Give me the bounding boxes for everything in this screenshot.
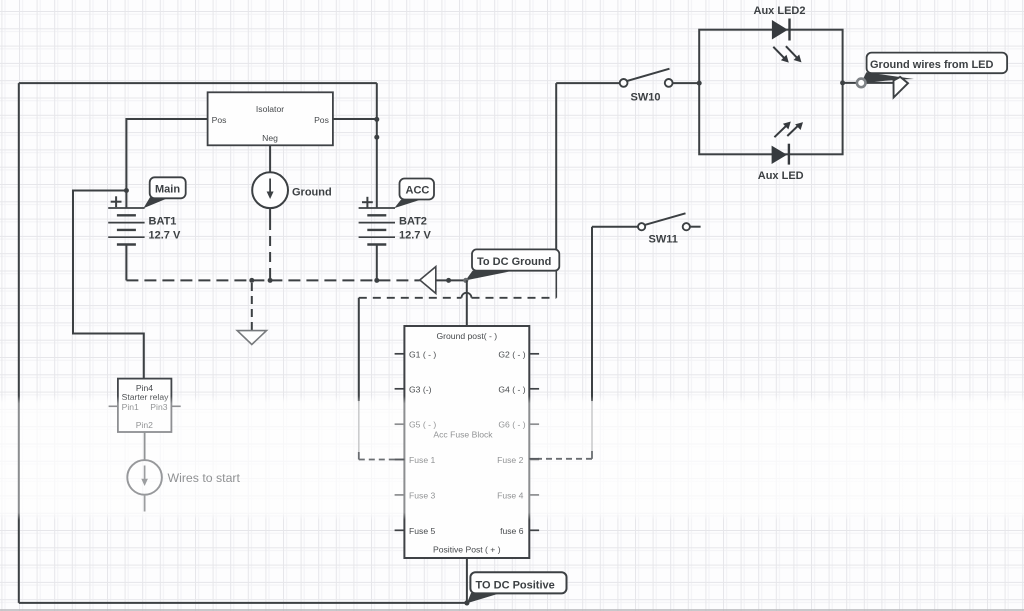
callout: To DC Positive label: [467, 593, 502, 604]
svg-text:SW11: SW11: [649, 234, 678, 246]
svg-text:G2 ( - ): G2 ( - ): [498, 349, 525, 359]
svg-text:BAT2: BAT2: [399, 216, 427, 228]
wire: relay Pin2 to wires-to-start source: [144, 432, 146, 460]
svg-text:SW10: SW10: [631, 91, 661, 103]
svg-text:TO DC Positive: TO DC Positive: [476, 579, 555, 591]
watermark wash overlay: [0, 396, 1024, 520]
svg-text:fuse 6: fuse 6: [500, 526, 524, 536]
op-amp: none / component isolator U1 box: [208, 92, 333, 145]
wire: isolator Neg pin down to ground source: [269, 145, 271, 172]
wire: loop right to ground-wires anchor: [843, 82, 896, 84]
pin stubs: fuse block left: [395, 354, 405, 531]
wire: SW10 net vertical to label: [555, 83, 557, 260]
wire: dashed link into Fuse 1: [358, 452, 360, 460]
svg-text:Aux LED: Aux LED: [758, 170, 804, 182]
svg-text:G4 ( - ): G4 ( - ): [498, 384, 525, 394]
label: BAT2 plus sign: [362, 197, 373, 208]
node: ground bus junction right: [446, 278, 451, 283]
wire: dashed drop to ground symbol: [251, 283, 253, 331]
svg-text:Isolator: Isolator: [256, 104, 284, 114]
wire: To DC Ground anchor down to fuse block Ground post: [466, 280, 468, 326]
svg-text:12.7 V: 12.7 V: [149, 230, 181, 242]
node: ground bus junction at ground symbol drop: [249, 278, 254, 283]
wire: dashed net to fuse block ground with hop: [359, 297, 462, 299]
wire: SW11 down to fuse block Fuse 2: [591, 227, 593, 401]
svg-text:Pos: Pos: [212, 115, 227, 125]
callout: To DC Ground label: [466, 271, 509, 281]
wire: dashed link into Fuse 2: [591, 451, 593, 459]
wire: ground source to dashed ground bus: [269, 208, 271, 220]
svg-text:Neg: Neg: [262, 133, 278, 143]
wire: label box right drop: [555, 271, 557, 298]
node: ground bus junction at ground source: [268, 278, 273, 283]
source: ground current source circle: [252, 172, 288, 208]
svg-text:Ground wires from LED: Ground wires from LED: [870, 59, 994, 71]
svg-text:Fuse 5: Fuse 5: [409, 526, 435, 536]
wire: top bus from left border to BAT2 drop: [19, 82, 377, 84]
wire: isolator left Pos to BAT1 top: [126, 119, 207, 191]
wire: LED parallel loop: [699, 30, 842, 155]
wire: dashed ground bus: [126, 279, 419, 281]
svg-text:Positive Post ( + ): Positive Post ( + ): [433, 545, 501, 555]
component: Pin4 starter relay box: [118, 379, 171, 432]
svg-text:Ground: Ground: [292, 187, 332, 199]
callout: Ground wires from LED label: [860, 72, 914, 84]
wire: fuse block positive post to bottom bus: [466, 558, 468, 603]
node: gray ring terminal: [857, 79, 866, 88]
svg-text:Ground post( - ): Ground post( - ): [436, 331, 497, 341]
node: loop right junction: [840, 80, 845, 85]
image bottom border: [0, 609, 1024, 611]
callout: Main label: [143, 197, 169, 208]
source: wires to start circle: [127, 460, 162, 495]
LED D1 Aux LED2: [772, 20, 788, 40]
wire: vertical from top bus down to BAT2: [376, 83, 378, 207]
wire: BAT1 top to starter relay: [73, 191, 144, 379]
svg-text:G1 ( - ): G1 ( - ): [409, 349, 436, 359]
battery BAT2: [359, 208, 395, 280]
svg-text:12.7 V: 12.7 V: [399, 230, 431, 242]
node: bottom bus junction: [464, 600, 469, 605]
svg-text:ACC: ACC: [406, 185, 430, 197]
pin stubs: fuse block right: [529, 354, 539, 531]
svg-text:Pos: Pos: [314, 115, 329, 125]
node: gray dot at To DC Ground anchor: [463, 278, 468, 283]
LED D2 Aux LED: [772, 146, 787, 164]
wire: bottom positive bus: [19, 602, 467, 604]
wire: isolator right Pos pin to vertical: [333, 118, 377, 120]
wire: below wires-to-start: [144, 495, 146, 512]
svg-text:To DC Ground: To DC Ground: [477, 256, 551, 268]
node: loop left junction: [697, 81, 702, 86]
battery BAT1: [108, 191, 144, 281]
callout: ACC label: [394, 200, 420, 209]
svg-text:Main: Main: [155, 184, 180, 196]
node: isolator Pos right junction: [374, 117, 379, 122]
svg-text:Aux LED2: Aux LED2: [754, 5, 806, 17]
label: BAT1 plus sign: [111, 196, 122, 207]
ground symbol: [237, 331, 266, 345]
node: ground bus junction at BAT2: [374, 278, 379, 283]
node: BAT1 positive junction: [124, 188, 129, 193]
svg-text:BAT1: BAT1: [149, 216, 177, 228]
node: junction below Pos right: [374, 135, 379, 140]
component: Acc Fuse Block: [404, 326, 529, 558]
arrow: open flag arrow: [894, 77, 909, 98]
switch SW11: [592, 226, 638, 228]
svg-text:G3 (-): G3 (-): [409, 384, 432, 394]
switch SW10: [556, 82, 619, 84]
arrow: open arrow on ground bus: [420, 267, 436, 294]
wire: left border vertical: [18, 83, 20, 603]
wire: vertical down from corner x359: [358, 298, 360, 401]
pin stubs: starter relay: [109, 405, 118, 407]
